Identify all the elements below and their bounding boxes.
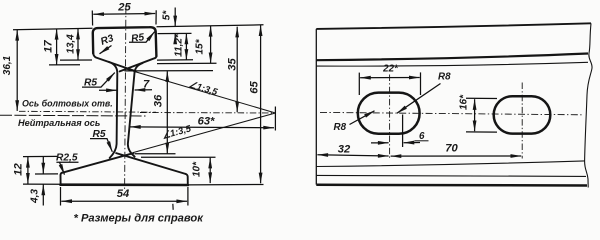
foot bottom line [61, 183, 188, 186]
dim 70 line [391, 155, 522, 157]
dim 16* line [474, 99, 476, 131]
head fillet line [316, 62, 588, 66]
dim 22* ext lines [358, 73, 360, 95]
svg-text:Нейтральная ось: Нейтральная ось [18, 118, 100, 128]
dim 4,3 lower part [42, 185, 44, 206]
svg-text:54: 54 [117, 188, 130, 200]
svg-text:∠1:3,5: ∠1:3,5 [187, 79, 219, 97]
top edge of head [316, 23, 591, 29]
dim 63* line [130, 126, 274, 129]
svg-text:R8: R8 [438, 72, 451, 83]
foot left edge R2,5 corner [60, 173, 61, 184]
svg-text:65: 65 [249, 81, 261, 94]
svg-text:70: 70 [445, 143, 458, 155]
svg-text:16*: 16* [459, 94, 470, 110]
dim 5* upper part [174, 8, 176, 27]
right hole centerline [521, 83, 523, 159]
upper web taper line 1:3,5 [127, 69, 275, 113]
ext line y=173.9 (top of 4,3) [35, 173, 58, 175]
bottom edge of foot [316, 184, 587, 187]
leader R8 upper [397, 84, 441, 114]
svg-text:7: 7 [143, 79, 150, 91]
neutral axis line [0, 114, 146, 117]
dim 6 right arrow [404, 142, 420, 144]
neutral axis continuation to apex [140, 112, 275, 115]
dim 25 line [93, 13, 155, 16]
foot: bottom line extended left [23, 183, 60, 185]
leader R5 head shelf [129, 32, 155, 43]
dim 11,2* [185, 34, 187, 60]
left bolt hole (oval) [358, 93, 420, 134]
ext line bottom of 13,4 on left [60, 59, 92, 61]
right bolt hole (oval) [494, 96, 551, 133]
dim 12 [27, 157, 29, 184]
centerline of section [125, 7, 126, 192]
dim 13,4 [77, 29, 79, 60]
svg-text:10*: 10* [192, 161, 203, 177]
dim 4,3 upper part [42, 157, 44, 174]
rail head outline [93, 27, 157, 56]
rail end (left edge) [315, 29, 317, 185]
svg-text:63*: 63* [198, 116, 215, 128]
dim 36 [166, 71, 168, 153]
svg-text:13,4: 13,4 [66, 34, 77, 54]
svg-text:* Размеры для справок: * Размеры для справок [74, 213, 205, 225]
head lower-right slope to web [120, 56, 157, 71]
foot top-left slope [62, 153, 133, 173]
dim 25 extension lines [91, 11, 93, 26]
dim 15* [210, 26, 212, 63]
foot bottom ext to the right [188, 184, 264, 186]
foot ext line y=157.3 right [141, 156, 216, 158]
svg-text:12: 12 [13, 163, 25, 176]
leader R2,5 [56, 162, 78, 174]
ext line for dim 6 [402, 115, 404, 148]
stray mark near 54 dim [172, 204, 174, 210]
web left line with fillets [109, 62, 118, 158]
dim 5* lower part [174, 34, 176, 42]
foot surface line [316, 175, 586, 176]
ext line y=59.9 (bottom of 11,2 / 13,4) [157, 59, 193, 61]
dim 54 ext left [60, 187, 62, 206]
leader R8 lower [350, 111, 375, 125]
bolt holes axis (dash-dot) [19, 110, 156, 113]
dim 6 left arrow [371, 142, 389, 144]
svg-text:25: 25 [117, 2, 131, 14]
svg-text:32: 32 [338, 144, 351, 156]
ext line y=33.5 (top of 11,2) [158, 32, 192, 34]
svg-text:36,1: 36,1 [2, 55, 13, 75]
ext line y=63.3 (bottom of 15) [157, 62, 217, 64]
foot: ext line y=156.4 left [23, 155, 57, 157]
dim 7 right part [135, 89, 152, 91]
svg-text:36: 36 [153, 94, 165, 107]
svg-text:R5: R5 [84, 78, 97, 89]
head top ext line to the right (for 5,15,35,65) [157, 25, 264, 27]
lower web taper line 1:3,5 [133, 113, 275, 153]
dim 36,1 [16, 30, 18, 111]
ext line y=153.7 (bottom of 36) [135, 153, 176, 155]
svg-text:∠1:3,5: ∠1:3,5 [161, 123, 193, 141]
apex extension line [274, 107, 276, 131]
dim 17 [56, 29, 58, 65]
svg-text:22*: 22* [382, 64, 399, 75]
svg-text:15*: 15* [195, 38, 206, 54]
dim 10* [209, 158, 211, 183]
break line (torn edge) [585, 23, 592, 187]
leader R5 web-bottom [90, 139, 112, 152]
dim 35 [236, 27, 238, 113]
svg-text:35: 35 [227, 58, 239, 71]
svg-text:5*: 5* [162, 10, 173, 21]
leader R5 web-top shelf [82, 73, 115, 88]
left hole centerline [389, 75, 391, 159]
svg-text:R2,5: R2,5 [56, 153, 78, 164]
svg-text:4,3: 4,3 [30, 189, 41, 204]
dim 54 line [61, 200, 187, 202]
svg-text:Ось болтовых отв.: Ось болтовых отв. [22, 99, 113, 109]
holes horizontal axis [320, 112, 583, 114]
svg-text:17: 17 [43, 40, 55, 53]
head-web upper line [316, 54, 588, 61]
dim 16* ext lines [466, 98, 497, 132]
dim 65 [260, 25, 262, 183]
web right line with fillets [128, 63, 143, 157]
svg-text:R8: R8 [334, 122, 347, 133]
svg-text:R5: R5 [131, 32, 146, 45]
dim 7 left part [99, 89, 117, 91]
svg-text:11,2*: 11,2* [174, 33, 185, 57]
dim 32 line [317, 155, 388, 156]
svg-text:R5: R5 [93, 129, 106, 140]
leader R3 [100, 46, 112, 54]
web-foot line [316, 161, 584, 167]
foot top-right slope [116, 153, 185, 174]
dim 54 ext right [187, 187, 189, 206]
ext line bottom of 17 [49, 64, 80, 66]
head lower-left slope to web [93, 53, 136, 71]
dim 22* line [360, 77, 420, 79]
foot right edge [185, 174, 187, 184]
head top ext line to the left (for 36,1 / 17 / 13,4) [13, 28, 93, 29]
ext line y=71 (top of 36) [125, 70, 214, 72]
svg-text:R3: R3 [99, 33, 115, 48]
